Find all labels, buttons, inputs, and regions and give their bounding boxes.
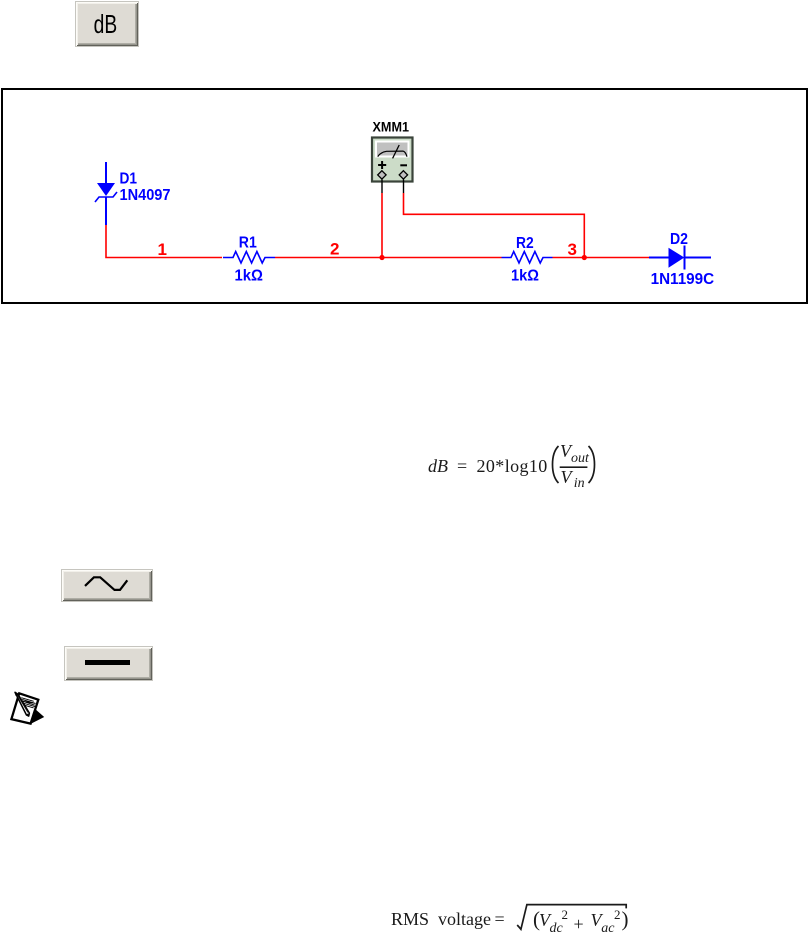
svg-text:1N1199C: 1N1199C <box>651 271 715 288</box>
minus sign <box>400 164 407 166</box>
svg-text:XMM1: XMM1 <box>373 120 410 135</box>
svg-text:D2: D2 <box>670 231 688 248</box>
resistor R2 <box>502 235 553 285</box>
wire R1 to R2 <box>275 257 502 259</box>
resistor R1 <box>223 235 275 285</box>
svg-text:1N4097: 1N4097 <box>120 187 171 204</box>
sine wave icon <box>85 577 127 590</box>
svg-text:1: 1 <box>158 240 167 259</box>
circuit frame box <box>1 88 808 304</box>
svg-text:D1: D1 <box>120 170 138 187</box>
RMS equation <box>0 0 810 1</box>
pin - terminal <box>399 171 407 179</box>
diode D2 <box>649 231 715 288</box>
dash icon <box>85 660 130 666</box>
multimeter XMM1 <box>372 120 413 182</box>
wire XMM1 + to node 2 <box>381 193 383 258</box>
dash (DC) button <box>64 646 153 681</box>
svg-text:3: 3 <box>568 240 577 259</box>
wire from D1 to main rail <box>106 225 222 258</box>
dB equation <box>0 0 810 1</box>
dB button <box>75 1 139 47</box>
svg-text:1kΩ: 1kΩ <box>235 267 264 284</box>
diode D1 (zener) <box>95 162 171 225</box>
wire XMM1 - to node 3 <box>404 193 585 258</box>
note icon <box>5 688 50 730</box>
plus sign <box>378 164 386 166</box>
XMM1 probe lead - (black) <box>403 180 405 194</box>
svg-text:1kΩ: 1kΩ <box>511 268 539 285</box>
wire node3 to D2 <box>553 257 650 259</box>
XMM1 probe lead + (black) <box>381 180 383 194</box>
junction node 3 <box>582 255 587 260</box>
junction node 2 <box>379 255 384 260</box>
sine (AC) button <box>61 569 153 602</box>
pin + terminal <box>378 171 386 179</box>
svg-text:2: 2 <box>330 240 339 259</box>
svg-text:R2: R2 <box>516 235 534 252</box>
svg-text:R1: R1 <box>239 235 257 252</box>
